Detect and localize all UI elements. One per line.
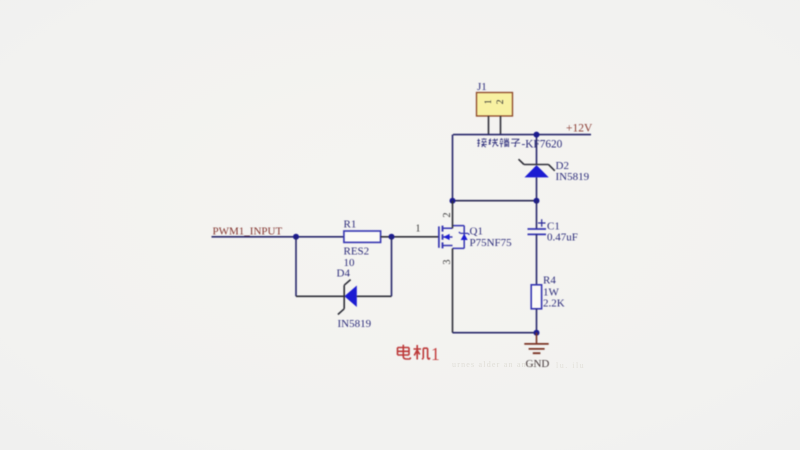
svg-text:2.2K: 2.2K <box>543 298 565 310</box>
svg-text:3: 3 <box>442 260 453 265</box>
wire left vertical (+12V to drain rail) <box>452 135 454 201</box>
resistor R4 <box>531 275 565 310</box>
wire R1 to gate <box>381 236 439 238</box>
diode D4 (schottky, pointing left) <box>337 268 372 331</box>
svg-text:GND: GND <box>526 358 550 370</box>
resistor R1 <box>344 219 381 270</box>
wire D4 left horizontal <box>296 295 344 297</box>
node junction dot R1/D4 <box>389 234 395 240</box>
wire PWM input horizontal <box>212 236 344 238</box>
node junction dot PWM/D4 <box>293 234 299 240</box>
wire bottom rail (source to ground node) <box>453 332 537 334</box>
node junction dot drain-right <box>534 198 540 204</box>
svg-text:2: 2 <box>496 99 506 104</box>
label 电机1 <box>398 344 440 364</box>
svg-text:urnes alder an anne: urnes alder an anne <box>452 360 537 369</box>
diode D2 (schottky, pointing up) <box>519 159 590 183</box>
wire J1 pin 1 stub <box>488 116 490 135</box>
svg-text:P75NF75: P75NF75 <box>470 237 513 249</box>
wire top rail (drain node) <box>453 200 537 202</box>
svg-text:+12V: +12V <box>566 123 593 135</box>
svg-text:PWM1_INPUT: PWM1_INPUT <box>213 226 283 238</box>
node junction dot ground <box>534 330 540 336</box>
wire D4 left vertical <box>295 237 297 296</box>
svg-text:1: 1 <box>416 224 421 235</box>
node junction dot drain-left <box>450 198 456 204</box>
wire D2 top vertical <box>536 135 538 165</box>
svg-text:1: 1 <box>431 344 440 364</box>
label 接线端子-KF7620 <box>477 138 562 150</box>
svg-text:Q1: Q1 <box>470 226 483 238</box>
svg-text:2: 2 <box>442 213 453 218</box>
wire drain vertical <box>452 201 454 229</box>
svg-text:R4: R4 <box>543 275 556 287</box>
svg-text:IN5819: IN5819 <box>338 318 372 330</box>
capacitor C1 <box>528 201 578 285</box>
svg-text:R1: R1 <box>344 219 357 231</box>
wire D4 right horizontal <box>357 295 392 297</box>
connector J1 <box>477 81 513 116</box>
svg-text:-KF7620: -KF7620 <box>522 138 563 150</box>
svg-text:RES2: RES2 <box>344 246 370 258</box>
wire R4 bottom <box>536 309 538 333</box>
svg-text:lu. ilu: lu. ilu <box>556 361 585 370</box>
transistor Q1 (N-MOSFET with body diode) <box>439 213 512 265</box>
svg-text:D4: D4 <box>337 268 351 280</box>
svg-text:J1: J1 <box>477 81 487 93</box>
svg-text:1: 1 <box>484 99 494 104</box>
wire D4 right vertical <box>391 237 393 296</box>
wire +12V rail <box>453 134 591 136</box>
wire J1 pin 2 stub <box>500 116 502 135</box>
wire source vertical <box>452 248 454 332</box>
wire D2 bottom vertical <box>536 177 538 200</box>
svg-text:0.47uF: 0.47uF <box>547 232 578 244</box>
svg-text:IN5819: IN5819 <box>556 171 590 183</box>
ground GND <box>524 333 549 370</box>
node junction dot +12V/D2 <box>534 132 540 138</box>
